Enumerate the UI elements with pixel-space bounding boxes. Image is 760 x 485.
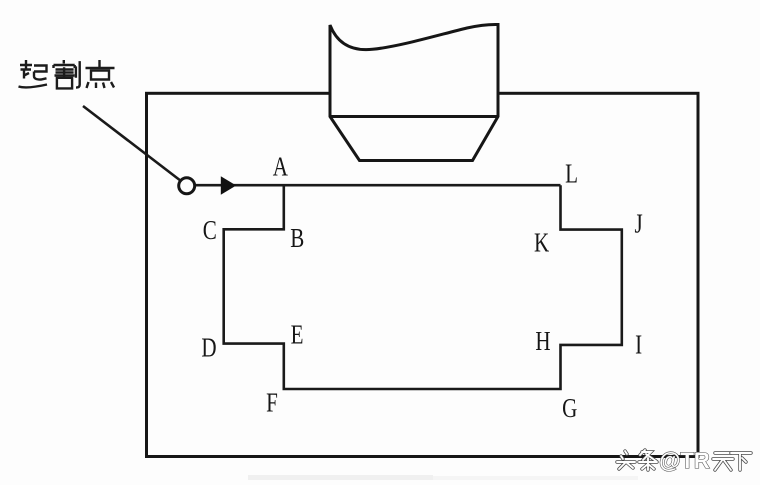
leader line xyxy=(83,106,181,181)
svg-text:E: E xyxy=(291,320,304,350)
svg-text:F: F xyxy=(266,388,278,418)
svg-text:J: J xyxy=(635,209,643,239)
direction arrow xyxy=(221,176,236,195)
svg-text:A: A xyxy=(273,152,289,182)
svg-text:K: K xyxy=(534,228,550,258)
svg-text:B: B xyxy=(290,224,304,254)
cut path top line A-L xyxy=(196,184,561,187)
svg-text:L: L xyxy=(565,159,578,189)
start point circle xyxy=(179,178,195,194)
node labels xyxy=(201,152,642,424)
svg-text:G: G xyxy=(562,394,577,424)
workpiece outer rectangle xyxy=(147,93,699,456)
wire clamp silhouette xyxy=(330,24,498,160)
clamp base line xyxy=(330,115,498,118)
svg-text:I: I xyxy=(635,330,642,360)
svg-text:H: H xyxy=(535,326,550,356)
label 起割点 xyxy=(19,60,115,88)
cut path polyline A-B-C-D-E-F-G-H-I-J-K-L xyxy=(224,185,622,389)
watermark 头条@TR天下 xyxy=(617,448,751,473)
watermark remnant smudge xyxy=(248,475,433,480)
svg-text:C: C xyxy=(203,215,217,245)
svg-text:@TR: @TR xyxy=(659,448,710,473)
svg-text:D: D xyxy=(201,333,216,363)
